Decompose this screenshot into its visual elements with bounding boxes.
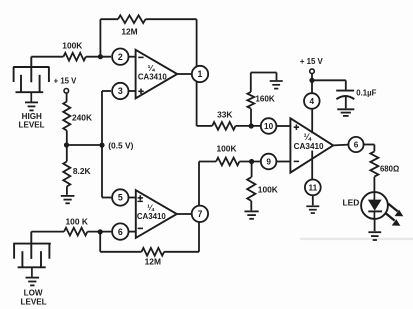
pin 4 (304, 93, 320, 109)
svg-text:9: 9 (266, 157, 271, 166)
svg-text:160K: 160K (255, 95, 275, 104)
capacitor 0.1uF (336, 90, 354, 92)
wire (311, 151, 313, 180)
svg-text:0.1µF: 0.1µF (356, 89, 376, 98)
pin 5 (112, 189, 128, 205)
pin 11 (305, 180, 321, 196)
ground (245, 210, 259, 212)
resistor 8.2K (63, 162, 70, 187)
svg-text:2: 2 (118, 52, 123, 62)
sensor probe HIGH LEVEL (30, 57, 32, 83)
svg-text:100K: 100K (216, 144, 236, 154)
wire (177, 213, 192, 215)
wire (67, 144, 103, 146)
wire (198, 162, 200, 206)
svg-text:4: 4 (310, 97, 315, 106)
wire (276, 125, 290, 127)
pin 6 (112, 223, 128, 239)
LED D1 (361, 192, 388, 219)
resistor 100 K (low level input) (64, 228, 87, 236)
resistor 12M (feedback op-amp U1b) (142, 248, 165, 256)
svg-text:¼: ¼ (304, 132, 312, 142)
svg-text:6: 6 (354, 140, 359, 149)
minus input marking (294, 160, 299, 162)
ground (25, 101, 38, 103)
node (0.5 V) (99, 143, 104, 148)
resistor 240K (63, 102, 70, 131)
svg-text:12M: 12M (145, 256, 161, 266)
wire (31, 231, 64, 233)
svg-text:CA3410: CA3410 (138, 73, 168, 82)
svg-text:¼: ¼ (148, 64, 156, 73)
wire (128, 56, 136, 58)
svg-text:5: 5 (118, 193, 123, 203)
svg-text:LEVEL: LEVEL (21, 298, 47, 307)
node 0.5V junction (64, 142, 69, 147)
wire (99, 19, 101, 57)
wire (87, 231, 111, 233)
node junction pin9 (249, 159, 254, 164)
node junction cap (309, 78, 314, 83)
wire (239, 161, 260, 163)
wire (66, 93, 68, 101)
svg-text:100 K: 100 K (66, 216, 88, 226)
wire (through device to pin 11) (311, 109, 313, 134)
op-amp U1c 1/4 CA3410 (290, 118, 333, 172)
plus input marking (138, 90, 143, 92)
wire (374, 219, 376, 231)
ground (26, 277, 40, 279)
pin 3 (112, 83, 128, 99)
wire (128, 197, 136, 199)
svg-text:+ 15 V: + 15 V (54, 77, 78, 86)
svg-text:1: 1 (198, 69, 203, 79)
wire (364, 144, 375, 146)
svg-text:11: 11 (308, 183, 317, 192)
op-amp U1b 1/4 CA3410 (136, 190, 177, 238)
wire (333, 144, 348, 147)
wire (345, 97, 347, 109)
wire (312, 195, 314, 205)
wire (99, 232, 101, 252)
node junction pin10 (249, 123, 254, 128)
minus input marking (138, 227, 143, 229)
svg-text:8.2K: 8.2K (73, 166, 91, 176)
resistor 100K (high level input) (63, 53, 85, 61)
LED light arrows (388, 204, 398, 212)
wire (250, 201, 252, 211)
resistor 680 ohm (370, 151, 378, 176)
pin 7 (192, 206, 208, 222)
wire (31, 56, 63, 58)
wire (276, 161, 290, 163)
resistor 12M (feedback op-amp U1a) (118, 15, 146, 23)
wire (66, 131, 68, 162)
svg-text:100K: 100K (258, 185, 278, 195)
svg-text:680Ω: 680Ω (380, 164, 399, 173)
svg-text:CA3410: CA3410 (137, 212, 167, 221)
power terminal +15V (right) (310, 69, 315, 74)
resistor 160K (247, 92, 254, 109)
svg-text:240K: 240K (72, 113, 92, 123)
wire (373, 177, 375, 193)
wire (128, 231, 136, 233)
svg-text:3: 3 (118, 86, 123, 96)
pin 1 (192, 66, 208, 82)
wire (128, 90, 136, 92)
wire (311, 74, 313, 94)
svg-text:33K: 33K (217, 110, 232, 120)
resistor 100K (to ground) (247, 177, 255, 201)
pin 9 (261, 154, 277, 170)
ground (61, 195, 75, 197)
svg-text:6: 6 (118, 227, 123, 237)
plus input marking (294, 126, 299, 128)
power terminal +15V (64, 89, 69, 94)
wire (250, 109, 252, 126)
sensor probe LOW LEVEL (30, 232, 32, 259)
svg-text:LED: LED (343, 197, 360, 207)
svg-text:7: 7 (197, 209, 202, 219)
ground (337, 108, 354, 110)
pin 10 (261, 118, 277, 134)
minus input marking (138, 56, 143, 58)
wire (250, 73, 252, 93)
resistor 100K (mid) (216, 158, 239, 166)
op-amp U1a 1/4 CA3410 (136, 50, 178, 99)
svg-text:LEVEL: LEVEL (19, 121, 45, 130)
wire (177, 73, 191, 75)
ground (270, 80, 283, 82)
wire (196, 82, 198, 126)
pin 2 (112, 49, 128, 65)
svg-text:10: 10 (264, 122, 274, 131)
ground (368, 231, 381, 233)
wire (146, 18, 197, 20)
wire (102, 90, 111, 92)
wire (66, 187, 68, 195)
node junction pin2 (98, 54, 103, 59)
resistor 33K (212, 122, 235, 130)
wire (236, 125, 261, 127)
svg-text:12M: 12M (121, 26, 137, 36)
svg-text:+ 15 V: + 15 V (300, 57, 324, 66)
wire (312, 79, 346, 81)
node junction pin6 (98, 229, 103, 234)
ground (306, 205, 319, 207)
pin 6 (output) (348, 137, 363, 152)
plus input marking (138, 197, 143, 199)
svg-text:LOW: LOW (24, 289, 43, 298)
svg-text:100K: 100K (62, 40, 82, 50)
wire (86, 56, 111, 58)
wire (164, 251, 199, 253)
wire (251, 162, 253, 178)
svg-text:CA3410: CA3410 (294, 142, 324, 151)
svg-text:(0.5 V): (0.5 V) (108, 141, 133, 151)
